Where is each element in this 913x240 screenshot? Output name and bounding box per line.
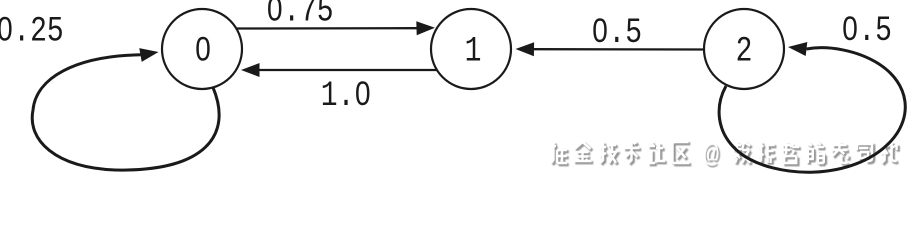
svg-text:@: @	[703, 140, 719, 170]
svg-text:1: 1	[465, 31, 482, 72]
svg-text:0.75: 0.75	[266, 0, 333, 32]
svg-text:2: 2	[736, 31, 753, 72]
svg-text:0.25: 0.25	[0, 11, 64, 52]
